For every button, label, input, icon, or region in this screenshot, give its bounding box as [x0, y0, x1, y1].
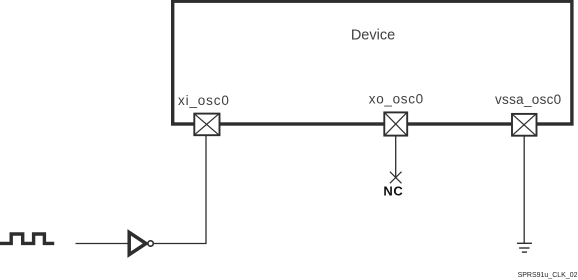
svg-text:Device: Device [351, 28, 395, 44]
svg-text:vssa_osc0: vssa_osc0 [495, 92, 561, 107]
svg-text:xi_osc0: xi_osc0 [178, 93, 230, 108]
wire from waveform to inverter input [76, 243, 129, 245]
wire from pin vssa_osc0 down to ground [523, 136, 525, 243]
wire from pin xo_osc0 down to NC [395, 136, 397, 178]
svg-text:SPRS91u_CLK_02: SPRS91u_CLK_02 [518, 272, 578, 279]
wire vertical from inverter output to pin xi_osc0 [205, 136, 207, 244]
pin xi_osc0 (box with X) [194, 114, 219, 136]
pin vssa_osc0 (box with X) [512, 114, 537, 136]
device U1 outline [173, 1, 572, 124]
wire from inverter output to vertical riser [154, 243, 207, 245]
svg-text:NC: NC [383, 184, 403, 199]
NC X mark [390, 172, 402, 184]
inverter U2 (buffer with bubble) [129, 232, 153, 254]
pin xo_osc0 (box with X) [384, 112, 407, 135]
ground [517, 243, 532, 252]
clock waveform symbol [0, 234, 54, 243]
svg-text:xo_osc0: xo_osc0 [369, 92, 424, 107]
